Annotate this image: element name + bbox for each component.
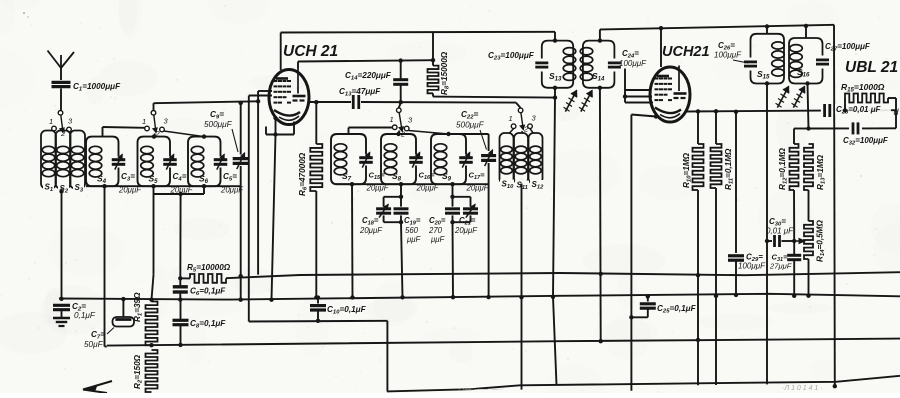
svg-text:μμF: μμF (406, 235, 422, 244)
svg-text:500μμF: 500μμF (456, 121, 485, 130)
svg-text:1: 1 (49, 117, 53, 126)
svg-text:0,1μF: 0,1μF (74, 311, 96, 320)
svg-text:1: 1 (142, 117, 146, 126)
svg-text:100μμF: 100μμF (738, 262, 766, 271)
svg-text:100μμF: 100μμF (619, 59, 647, 68)
svg-text:100μμF: 100μμF (714, 51, 742, 60)
svg-text:·Л 1 0 1 4 1 ·: ·Л 1 0 1 4 1 · (782, 385, 823, 392)
svg-text:2: 2 (155, 129, 161, 138)
svg-text:20μμF: 20μμF (454, 226, 478, 235)
svg-text:UCH 21: UCH 21 (283, 43, 338, 60)
svg-text:2: 2 (523, 125, 529, 134)
svg-text:27μμF: 27μμF (769, 262, 792, 271)
svg-text:μμF: μμF (430, 235, 446, 244)
svg-text:UCH21: UCH21 (662, 44, 710, 60)
svg-text:0,01 μF: 0,01 μF (766, 227, 794, 236)
svg-text:· ·—·—— ·—··: · ·—·—— ·—·· (458, 386, 504, 393)
svg-text:UBL 21: UBL 21 (845, 59, 898, 76)
svg-text:50μF: 50μF (84, 340, 104, 349)
svg-text:500μμF: 500μμF (204, 120, 233, 129)
svg-text:270: 270 (428, 226, 443, 235)
svg-text:2: 2 (400, 130, 406, 139)
svg-text:1: 1 (509, 114, 513, 123)
svg-text:1: 1 (390, 115, 394, 124)
svg-text:20μμF: 20μμF (466, 184, 490, 193)
svg-text:20μμF: 20μμF (118, 186, 142, 195)
svg-text:560: 560 (405, 226, 419, 235)
svg-text:20μμF: 20μμF (359, 226, 383, 235)
